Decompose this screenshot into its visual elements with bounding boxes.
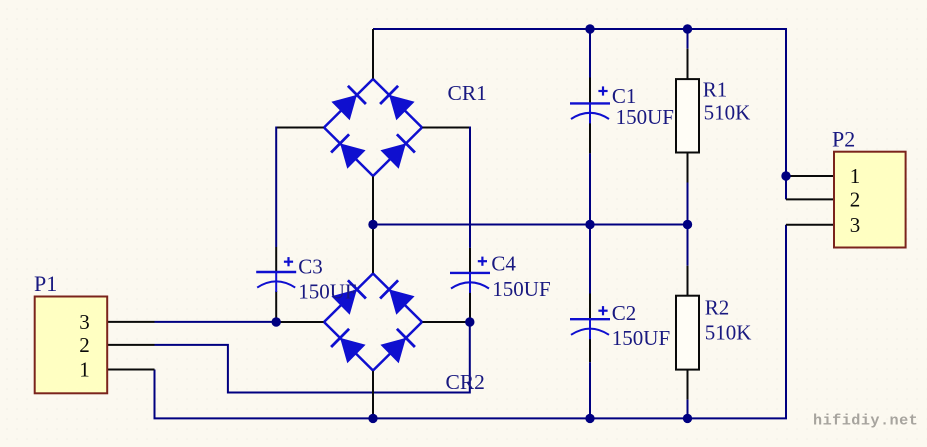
junction mid rail / R1-R2 [683, 220, 692, 229]
svg-text:R2: R2 [705, 296, 730, 320]
junction mid rail / C1-C2 [585, 220, 594, 229]
junction top rail / C1 [585, 24, 594, 33]
wire C3 lower stub [275, 291, 277, 322]
junction top rail / R1 [683, 24, 692, 33]
connector P1 [34, 271, 107, 393]
wire top +rail from CR1 top to P2 column [373, 29, 786, 199]
junction P2 pin1 [781, 171, 790, 180]
wire middle rail [373, 224, 688, 226]
svg-text:2: 2 [79, 333, 90, 357]
wire P1 pin3 net [155, 321, 277, 323]
capacitor C3 150UF [256, 255, 356, 304]
wire R1 top stub [687, 29, 689, 49]
svg-text:R1: R1 [703, 78, 728, 102]
svg-text:C4: C4 [491, 252, 516, 276]
svg-text:hifidiy.net: hifidiy.net [813, 412, 918, 430]
svg-text:3: 3 [79, 310, 90, 334]
connector P2 [832, 126, 906, 247]
bridge rectifier CR1 [324, 79, 487, 176]
bridge rectifier CR2 [324, 274, 485, 395]
wire CR1 top stub [372, 29, 374, 80]
wire P2 pin3 stub [786, 224, 835, 226]
svg-text:150UF: 150UF [612, 326, 670, 350]
svg-text:P1: P1 [34, 271, 57, 296]
svg-text:C2: C2 [612, 301, 637, 325]
wire CR1 right stub to C4 [422, 127, 471, 129]
svg-text:3: 3 [850, 213, 861, 237]
svg-text:510K: 510K [705, 321, 752, 345]
wire C1 upper stub [589, 29, 591, 78]
svg-text:1: 1 [79, 358, 90, 382]
wire CR1 left stub to C3 [276, 127, 324, 129]
wire R1 bottom stub [687, 153, 689, 183]
svg-text:2: 2 [850, 187, 861, 211]
capacitor C2 150UF [570, 301, 670, 350]
svg-text:P2: P2 [832, 126, 855, 151]
wire P1 pin2 stub [106, 344, 155, 346]
junction bottom rail / C2 [585, 414, 594, 423]
svg-text:150UF: 150UF [298, 279, 356, 303]
resistor R2 510K [676, 296, 751, 370]
svg-text:CR2: CR2 [446, 370, 485, 394]
junction mid rail / CR1-CR2 [368, 220, 377, 229]
wire P1 pin3 stub [106, 321, 155, 323]
wire R2 top stub [687, 225, 689, 266]
wire R2 bottom stub [687, 370, 689, 400]
resistor R1 510K [676, 78, 750, 153]
capacitor C1 150UF [570, 84, 674, 129]
wire CR2 left stub [276, 321, 324, 323]
svg-text:150UF: 150UF [492, 277, 550, 301]
junction bottom rail / R2 [683, 414, 692, 423]
svg-text:C3: C3 [298, 255, 323, 279]
svg-text:1: 1 [850, 164, 861, 188]
wire P1 pin1 stub [106, 369, 155, 371]
junction bottom rail / CR2 [368, 414, 377, 423]
wire P1 pin2 net to CR2 right node [155, 322, 470, 393]
capacitor C4 150UF [450, 252, 551, 301]
junction node AC1 (P1.3/C3/CR2) [272, 317, 281, 326]
wire C1 lower stub [589, 122, 591, 153]
wire bottom rail from P1 pin1 to P2 pin3 [155, 225, 787, 419]
wire C2 lower stub [589, 338, 591, 362]
svg-text:CR1: CR1 [448, 81, 487, 105]
wire CR1 bottom stub [372, 176, 374, 225]
wire CR2 bottom stub [372, 370, 374, 419]
wire P2 pin2 stub [786, 198, 835, 200]
svg-text:150UF: 150UF [616, 105, 674, 129]
wire C4 lower stub [469, 292, 471, 322]
wire C2 upper stub [589, 225, 591, 294]
svg-text:510K: 510K [704, 101, 751, 125]
junction node AC2 (C4/CR2) [465, 317, 474, 326]
wire CR2 right stub [422, 321, 470, 323]
wire CR2 top stub [372, 225, 374, 275]
wire P2 pin1 stub [786, 175, 835, 177]
